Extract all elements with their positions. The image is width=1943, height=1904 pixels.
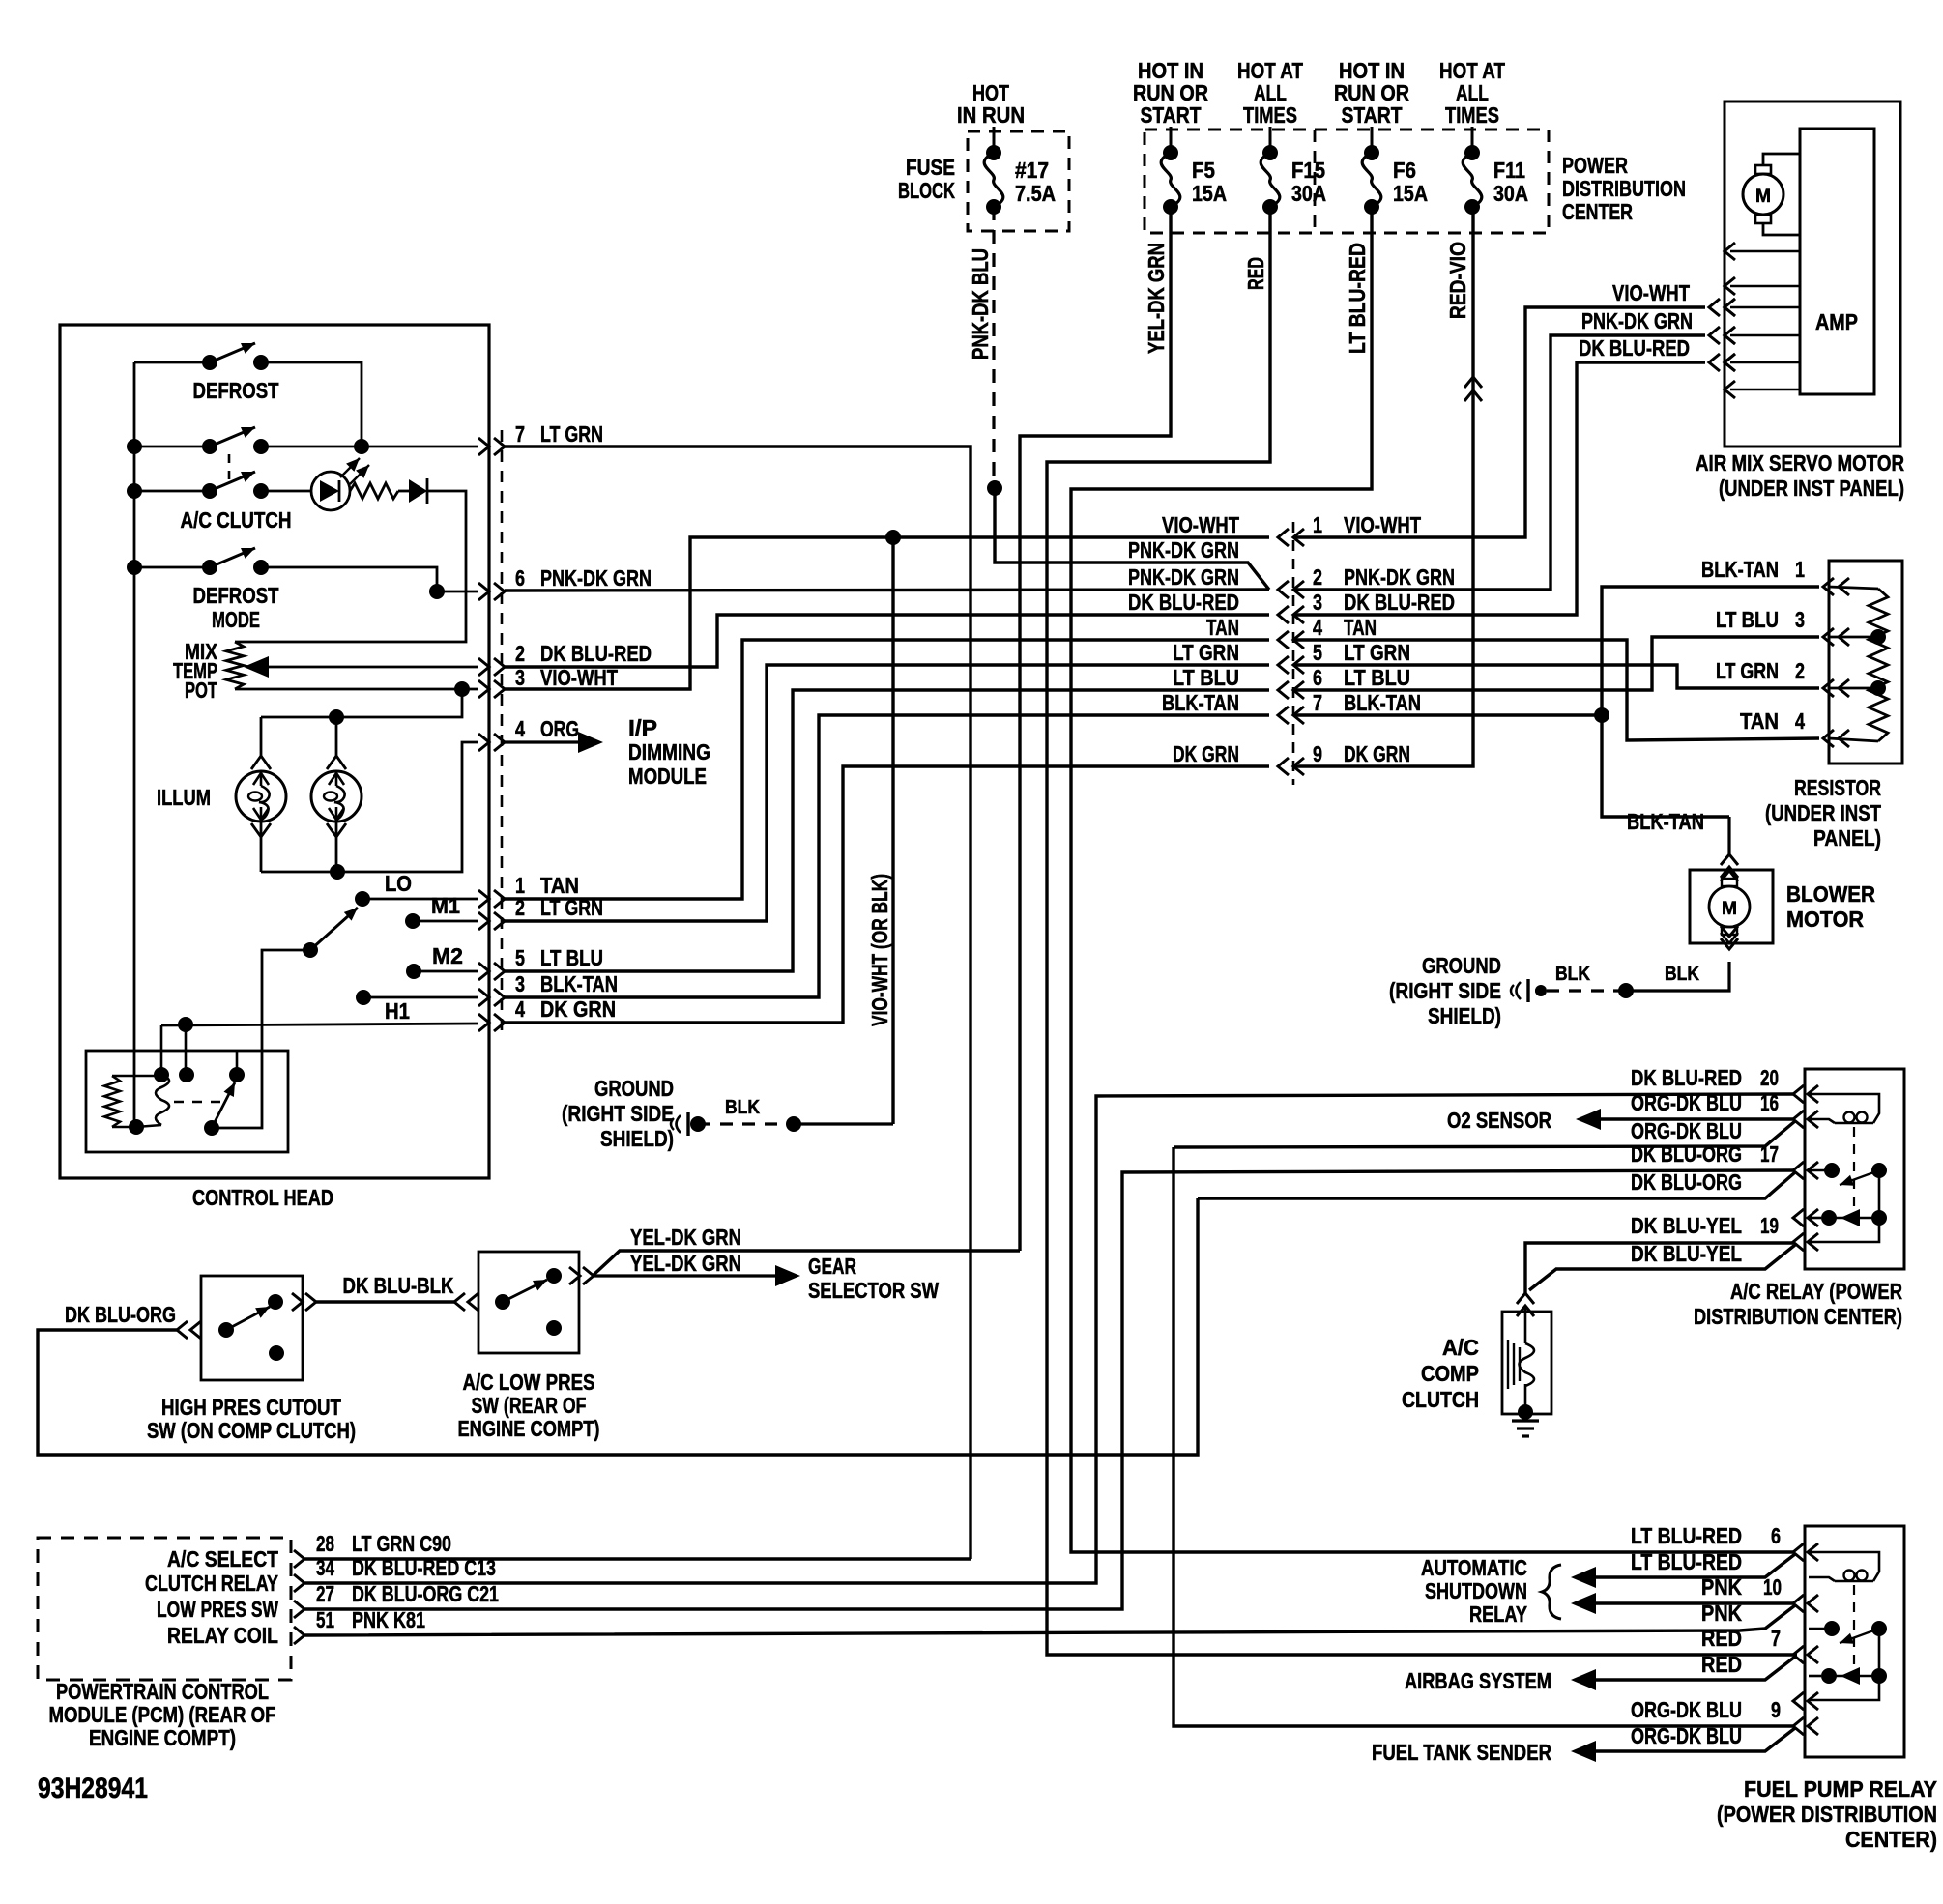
label GEAR SELECTOR SW bbox=[808, 1254, 939, 1303]
right connector dashed line bbox=[1292, 522, 1295, 785]
svg-text:(RIGHT SIDE: (RIGHT SIDE bbox=[562, 1101, 674, 1126]
diode bbox=[398, 478, 427, 504]
ASD relay brace bbox=[1542, 1565, 1561, 1619]
svg-text:PNK-DK BLU: PNK-DK BLU bbox=[968, 248, 993, 360]
svg-text:H1: H1 bbox=[385, 998, 410, 1024]
svg-text:VIO-WHT: VIO-WHT bbox=[1162, 512, 1239, 537]
svg-text:F15: F15 bbox=[1291, 158, 1325, 183]
wire BLK dashed (left ground) bbox=[690, 1116, 893, 1132]
svg-text:F11: F11 bbox=[1493, 158, 1525, 183]
svg-text:M: M bbox=[1722, 899, 1737, 919]
resistor pin 4 chevrons bbox=[1823, 730, 1849, 747]
wire YEL-DK GRN from F5 bbox=[1020, 207, 1171, 1251]
svg-text:LT BLU: LT BLU bbox=[540, 945, 603, 970]
fan M2 contact bbox=[406, 943, 478, 979]
svg-text:POT: POT bbox=[185, 678, 217, 703]
svg-text:PNK K81: PNK K81 bbox=[352, 1607, 425, 1632]
svg-text:RED: RED bbox=[1701, 1626, 1742, 1651]
svg-text:RED: RED bbox=[1243, 257, 1268, 290]
svg-text:PNK: PNK bbox=[1701, 1574, 1742, 1600]
label 1 VIO-WHT bbox=[1313, 512, 1421, 537]
label GROUND (RIGHT SIDE SHIELD) right bbox=[1389, 953, 1501, 1028]
wire ORG to dimming module bbox=[505, 732, 603, 753]
wire VIO-WHT (OR BLK) down bbox=[891, 537, 894, 1124]
amp pin stub 2 bbox=[1725, 277, 1800, 295]
svg-text:RESISTOR: RESISTOR bbox=[1794, 775, 1881, 800]
label left TAN bbox=[1206, 615, 1239, 640]
fuse F6 15A bbox=[1362, 127, 1428, 215]
svg-text:LT GRN: LT GRN bbox=[540, 895, 603, 920]
svg-text:FUEL PUMP RELAY: FUEL PUMP RELAY bbox=[1744, 1776, 1937, 1802]
wire LT GRN to resistor pin 2 bbox=[1295, 665, 1819, 688]
svg-text:DEFROST: DEFROST bbox=[193, 378, 279, 403]
wire BLK-TAN row 3 right bbox=[505, 715, 1269, 997]
wire BLK-TAN row 7 stub bbox=[1295, 713, 1602, 716]
svg-text:DIMMING: DIMMING bbox=[628, 739, 710, 764]
svg-text:2: 2 bbox=[1795, 658, 1805, 683]
label 6 LT BLU bbox=[1313, 665, 1410, 690]
svg-text:PNK: PNK bbox=[1701, 1601, 1742, 1626]
label DK BLU-BLK bbox=[343, 1273, 454, 1298]
svg-text:LT GRN C90: LT GRN C90 bbox=[352, 1531, 451, 1556]
svg-text:30A: 30A bbox=[1291, 181, 1326, 206]
wire BLK-TAN resistor pin 1 bbox=[1594, 587, 1819, 817]
label 28 LT GRN C90 bbox=[316, 1531, 451, 1556]
wire PNK-DK BLU to connector row 2 bbox=[995, 488, 1269, 590]
svg-text:6: 6 bbox=[1313, 665, 1322, 690]
svg-text:BLK-TAN: BLK-TAN bbox=[1162, 690, 1239, 715]
relay coil bbox=[136, 1075, 169, 1127]
LED indicator bbox=[311, 458, 369, 510]
svg-text:YEL-DK GRN: YEL-DK GRN bbox=[630, 1225, 741, 1250]
wire row 6 to connector bbox=[437, 591, 478, 593]
resistor tap 2 bbox=[1829, 680, 1886, 696]
wire LT BLU-RED from F6 bbox=[1071, 207, 1793, 1552]
svg-text:DK GRN: DK GRN bbox=[1173, 741, 1239, 766]
svg-text:15A: 15A bbox=[1192, 181, 1227, 206]
wire RED from F15 bbox=[1047, 207, 1797, 1655]
label PNK-DK BLU (vertical) bbox=[968, 248, 993, 360]
svg-text:CENTER): CENTER) bbox=[1845, 1827, 1937, 1852]
svg-text:CENTER: CENTER bbox=[1562, 199, 1633, 224]
label 51 PNK K81 bbox=[316, 1607, 425, 1632]
connector row 1 chevrons bbox=[1278, 529, 1304, 546]
label 2 DK BLU-RED bbox=[515, 641, 652, 666]
label 9 DK GRN bbox=[1313, 741, 1410, 766]
fuse #17 7.5A bbox=[984, 127, 1056, 215]
wire VIO-WHT to amp bbox=[1295, 299, 1735, 537]
svg-text:BLOWER: BLOWER bbox=[1786, 881, 1875, 907]
svg-text:BLOCK: BLOCK bbox=[898, 178, 955, 203]
svg-text:LT GRN: LT GRN bbox=[540, 421, 603, 447]
label left PNK-DK GRN bbox=[1128, 564, 1239, 590]
svg-text:I/P: I/P bbox=[628, 715, 657, 740]
svg-text:M: M bbox=[1755, 187, 1771, 207]
svg-text:DK BLU-RED: DK BLU-RED bbox=[1128, 590, 1239, 615]
a/c low pres sw box bbox=[478, 1252, 579, 1353]
svg-text:5: 5 bbox=[515, 945, 525, 970]
label YEL-DK GRN upper bbox=[630, 1225, 741, 1250]
svg-text:(POWER DISTRIBUTION: (POWER DISTRIBUTION bbox=[1717, 1802, 1937, 1827]
a/c low pres sw connector left bbox=[454, 1293, 478, 1311]
svg-text:MOTOR: MOTOR bbox=[1786, 907, 1864, 932]
node relay top bbox=[154, 1025, 169, 1082]
svg-text:#17: #17 bbox=[1015, 158, 1049, 183]
fuse block box (dashed) bbox=[968, 131, 1069, 231]
svg-text:HIGH PRES CUTOUT: HIGH PRES CUTOUT bbox=[161, 1395, 341, 1420]
label 4 DK GRN bbox=[515, 996, 616, 1022]
svg-text:28: 28 bbox=[316, 1531, 334, 1556]
ground symbol (blower) bbox=[1511, 979, 1528, 1002]
label A/C COMP CLUTCH bbox=[1402, 1335, 1479, 1412]
svg-text:DK GRN: DK GRN bbox=[1344, 741, 1410, 766]
wire VIO-WHT row 3 right bbox=[505, 537, 1269, 689]
fuel pump pin 9 chevrons bbox=[1793, 1717, 1818, 1735]
wire LT BLU-RED second (ASD) bbox=[1571, 1554, 1795, 1588]
label ORG-DK BLU lower bbox=[1631, 1118, 1742, 1143]
svg-text:COMP: COMP bbox=[1421, 1361, 1479, 1386]
svg-text:TAN: TAN bbox=[1740, 708, 1779, 734]
relay NO contact bbox=[229, 1051, 245, 1082]
svg-text:3: 3 bbox=[515, 665, 525, 690]
air mix servo motor outer box bbox=[1725, 101, 1900, 447]
svg-text:PNK-DK GRN: PNK-DK GRN bbox=[540, 565, 652, 591]
label O2 SENSOR bbox=[1447, 1108, 1551, 1133]
label 4 ORG bbox=[515, 716, 579, 741]
label RED lower bbox=[1701, 1652, 1742, 1677]
label 3 DK BLU-RED bbox=[1313, 590, 1455, 615]
svg-text:BLK: BLK bbox=[725, 1097, 760, 1118]
label I/P DIMMING MODULE bbox=[628, 715, 710, 789]
svg-text:VIO-WHT (OR BLK): VIO-WHT (OR BLK) bbox=[867, 874, 892, 1026]
blower motor box bbox=[1690, 870, 1773, 943]
fuel pump pin 7 chevrons bbox=[1793, 1646, 1818, 1663]
svg-text:A/C: A/C bbox=[1442, 1335, 1479, 1360]
svg-text:START: START bbox=[1141, 102, 1202, 128]
label 2 PNK-DK GRN bbox=[1313, 564, 1455, 590]
svg-text:(UNDER INST: (UNDER INST bbox=[1765, 800, 1881, 825]
label RED (vertical) bbox=[1243, 257, 1268, 290]
svg-text:F6: F6 bbox=[1393, 158, 1416, 183]
a/c relay internals bbox=[1809, 1094, 1887, 1242]
relay resistor bbox=[104, 1076, 155, 1127]
connector row 2 chevrons bbox=[1278, 581, 1304, 598]
connector pin 6 chevrons bbox=[478, 583, 505, 600]
fan M1 contact bbox=[405, 893, 478, 929]
label HOT IN RUN OR START (F5) bbox=[1133, 58, 1208, 128]
svg-text:BLK-TAN: BLK-TAN bbox=[540, 971, 618, 996]
wire DK GRN row 4 right bbox=[505, 766, 1269, 1023]
svg-text:SW (ON COMP CLUTCH): SW (ON COMP CLUTCH) bbox=[147, 1418, 356, 1443]
svg-text:BLK: BLK bbox=[1555, 964, 1590, 985]
pcm pin 34 chevron bbox=[294, 1574, 304, 1592]
label VIO-WHT (amp wire) bbox=[1612, 280, 1690, 305]
a/c comp clutch coil bbox=[1508, 1306, 1534, 1412]
a/c low pres sw connector right bbox=[569, 1267, 594, 1284]
svg-text:DISTRIBUTION: DISTRIBUTION bbox=[1562, 176, 1686, 201]
label PNK-DK GRN upper bbox=[1128, 537, 1239, 563]
wire PNK to ASD relay bbox=[1571, 1593, 1793, 1614]
svg-text:FUSE: FUSE bbox=[906, 155, 955, 180]
resistor in LED circuit bbox=[350, 483, 398, 499]
label GROUND (RIGHT SIDE SHIELD) left bbox=[562, 1076, 674, 1151]
svg-text:PNK-DK GRN: PNK-DK GRN bbox=[1344, 564, 1455, 590]
wire DK BLU-RED row 2 to pot wiper bbox=[244, 656, 478, 678]
wire diode to mix temp pot bbox=[235, 491, 466, 642]
label RED 7 bbox=[1701, 1626, 1781, 1651]
defrost mode switch bbox=[134, 548, 437, 632]
wire O2 sensor bbox=[1576, 1109, 1793, 1130]
label left LT GRN bbox=[1173, 640, 1239, 665]
amp pin stub 6 bbox=[1725, 381, 1800, 398]
svg-text:TAN: TAN bbox=[1206, 615, 1239, 640]
wire pot bottom to row 3 bbox=[235, 681, 478, 697]
svg-text:CLUTCH RELAY: CLUTCH RELAY bbox=[145, 1571, 278, 1596]
svg-text:ORG-DK BLU: ORG-DK BLU bbox=[1631, 1723, 1742, 1748]
label left LT BLU bbox=[1173, 665, 1239, 690]
a/c comp clutch box bbox=[1502, 1312, 1551, 1414]
wire PNK K81 (pcm 51) bbox=[304, 1605, 1795, 1635]
svg-text:ORG-DK BLU: ORG-DK BLU bbox=[1631, 1697, 1742, 1722]
connector row 6 chevrons bbox=[1278, 681, 1304, 699]
resistor element bbox=[1829, 587, 1888, 741]
power distribution center box (dashed) bbox=[1145, 130, 1549, 233]
wire RED-VIO / DK GRN from F11 down to row 9 bbox=[1295, 207, 1473, 766]
label AUTOMATIC SHUTDOWN RELAY bbox=[1421, 1555, 1527, 1627]
wire DK BLU-RED row 2 right bbox=[505, 615, 1269, 667]
label left BLK-TAN bbox=[1162, 690, 1239, 715]
svg-text:YEL-DK GRN: YEL-DK GRN bbox=[1144, 243, 1169, 354]
svg-text:ORG-DK BLU: ORG-DK BLU bbox=[1631, 1090, 1742, 1115]
a/c relay pin 16 chevrons bbox=[1793, 1111, 1818, 1128]
wire DK BLU-RED to amp bbox=[1295, 354, 1735, 615]
svg-text:M2: M2 bbox=[432, 943, 463, 968]
wire PNK-DK BLU from fuse #17 (dashed) bbox=[992, 207, 995, 488]
connector pin 2b chevrons bbox=[478, 912, 505, 930]
a/c relay box bbox=[1805, 1069, 1904, 1269]
svg-text:RELAY: RELAY bbox=[1469, 1601, 1527, 1627]
a/c relay pin 20 chevrons bbox=[1793, 1085, 1818, 1103]
svg-text:3: 3 bbox=[515, 971, 525, 996]
node VIO-WHT branch bbox=[885, 530, 901, 545]
high pres cutout sw connector right bbox=[292, 1293, 316, 1311]
illum lamp 1 bbox=[236, 717, 286, 872]
amp pin stub 1 bbox=[1725, 243, 1800, 260]
label TAN 4 bbox=[1740, 708, 1805, 734]
svg-text:17: 17 bbox=[1760, 1141, 1779, 1167]
wire TAN row 1 right bbox=[505, 640, 1269, 899]
label 7 BLK-TAN bbox=[1313, 690, 1421, 715]
svg-text:6: 6 bbox=[1771, 1523, 1781, 1548]
fuel pump pin 10 chevrons bbox=[1793, 1595, 1818, 1612]
svg-text:LO: LO bbox=[385, 871, 412, 896]
fuel pump pin x chevron bbox=[1793, 1692, 1818, 1710]
amp pin stub 3 bbox=[1725, 299, 1800, 316]
label ORG-DK BLU 9 bbox=[1631, 1697, 1781, 1722]
svg-text:3: 3 bbox=[1313, 590, 1322, 615]
label 5 LT BLU bbox=[515, 945, 603, 970]
svg-text:10: 10 bbox=[1763, 1574, 1782, 1600]
label AIRBAG SYSTEM bbox=[1405, 1668, 1551, 1693]
svg-text:POWER: POWER bbox=[1562, 153, 1628, 178]
label AIR MIX SERVO MOTOR bbox=[1696, 450, 1904, 501]
pcm pin 51 label bbox=[167, 1623, 278, 1648]
node splice on PNK-DK BLU bbox=[987, 480, 1002, 496]
label BLK-TAN (blower wire) bbox=[1627, 809, 1704, 834]
label DK BLU-ORG 17 bbox=[1631, 1141, 1779, 1167]
svg-text:DK BLU-RED: DK BLU-RED bbox=[1631, 1065, 1742, 1090]
svg-text:PNK-DK GRN: PNK-DK GRN bbox=[1581, 308, 1693, 333]
svg-text:9: 9 bbox=[1313, 741, 1322, 766]
svg-text:RED-VIO: RED-VIO bbox=[1445, 242, 1470, 319]
label left VIO-WHT bbox=[1162, 512, 1239, 537]
wire ORG-DK BLU second bbox=[1174, 1147, 1793, 1726]
blower motor bbox=[1709, 871, 1750, 943]
fuel pump relay box bbox=[1805, 1526, 1904, 1757]
connector row 9 chevrons bbox=[1278, 758, 1304, 775]
label 3 BLK-TAN bbox=[515, 971, 618, 996]
svg-text:RELAY COIL: RELAY COIL bbox=[167, 1623, 278, 1648]
connector row 3 chevrons bbox=[1278, 606, 1304, 623]
connector pin 4 chevrons bbox=[478, 734, 505, 751]
svg-text:5: 5 bbox=[1313, 640, 1322, 665]
wire ORG-DK BLU diag to pin16 bbox=[1174, 1121, 1795, 1147]
label CONTROL HEAD bbox=[192, 1185, 333, 1210]
svg-text:A/C CLUTCH: A/C CLUTCH bbox=[181, 507, 292, 533]
svg-text:2: 2 bbox=[515, 641, 525, 666]
a/c clutch switch bbox=[134, 472, 311, 533]
svg-text:SHIELD): SHIELD) bbox=[1428, 1003, 1501, 1028]
mode switch row 7 bbox=[134, 427, 478, 454]
relay switch arm bbox=[204, 1082, 235, 1136]
svg-text:ILLUM: ILLUM bbox=[157, 785, 211, 810]
blower ground wire bbox=[1618, 926, 1738, 998]
svg-text:2: 2 bbox=[1313, 564, 1322, 590]
svg-text:TIMES: TIMES bbox=[1445, 102, 1499, 128]
svg-text:DK BLU-YEL: DK BLU-YEL bbox=[1631, 1241, 1742, 1266]
pcm pin 28 chevron bbox=[294, 1550, 304, 1568]
svg-text:BLK-TAN: BLK-TAN bbox=[1701, 557, 1779, 582]
motor M in servo box bbox=[1743, 154, 1800, 235]
label POWERTRAIN CONTROL MODULE bbox=[49, 1679, 276, 1750]
control head box bbox=[60, 325, 489, 1178]
label ORG-DK BLU 16 bbox=[1631, 1090, 1779, 1115]
high pres cutout sw box bbox=[201, 1276, 303, 1380]
svg-text:DK BLU-RED: DK BLU-RED bbox=[540, 641, 652, 666]
svg-text:4: 4 bbox=[515, 716, 525, 741]
illum lamp 2 bbox=[311, 717, 362, 872]
svg-text:BLK-TAN: BLK-TAN bbox=[1344, 690, 1421, 715]
wire LT GRN row 2 right bbox=[505, 665, 1269, 921]
wire DK BLU-ORG from high pres sw bbox=[38, 1198, 1198, 1455]
label PNK 10 bbox=[1701, 1574, 1782, 1600]
a/c relay label bbox=[1694, 1279, 1902, 1329]
svg-text:AMP: AMP bbox=[1815, 309, 1858, 334]
svg-text:4: 4 bbox=[1795, 708, 1805, 734]
a/c comp clutch ground bbox=[1512, 1404, 1539, 1436]
node rail-row7 bbox=[127, 439, 142, 454]
svg-text:CONTROL HEAD: CONTROL HEAD bbox=[192, 1185, 333, 1210]
svg-text:27: 27 bbox=[316, 1581, 334, 1606]
svg-text:PNK-DK GRN: PNK-DK GRN bbox=[1128, 537, 1239, 563]
wire YEL-DK GRN upper bbox=[593, 1251, 1020, 1276]
label HIGH PRES CUTOUT SW bbox=[147, 1395, 356, 1443]
svg-text:51: 51 bbox=[316, 1607, 334, 1632]
label LT BLU-RED lower bbox=[1631, 1549, 1742, 1574]
label ILLUM bbox=[157, 785, 211, 810]
svg-text:LT BLU: LT BLU bbox=[1344, 665, 1410, 690]
wire LT BLU to resistor pin 3 bbox=[1295, 637, 1819, 690]
high pres cutout sw contacts bbox=[218, 1294, 284, 1361]
fuel pump pin 6 chevrons bbox=[1793, 1543, 1818, 1561]
label 1 TAN bbox=[515, 873, 579, 898]
svg-text:SHIELD): SHIELD) bbox=[600, 1126, 674, 1151]
svg-text:LT GRN: LT GRN bbox=[1716, 658, 1779, 683]
label 5 LT GRN bbox=[1313, 640, 1410, 665]
wire ORG-DK BLU second (fuel tank) bbox=[1571, 1728, 1795, 1762]
svg-text:VIO-WHT: VIO-WHT bbox=[1612, 280, 1690, 305]
left bus rail in control head bbox=[133, 362, 136, 1127]
svg-text:SHUTDOWN: SHUTDOWN bbox=[1425, 1578, 1527, 1603]
svg-text:93H28941: 93H28941 bbox=[38, 1773, 148, 1804]
wire PNK-DK GRN row 6 bbox=[505, 590, 1269, 591]
svg-text:PNK-DK GRN: PNK-DK GRN bbox=[1128, 564, 1239, 590]
wire DK BLU-RED C13 (pcm 34) bbox=[304, 1094, 1793, 1583]
svg-text:6: 6 bbox=[515, 565, 525, 591]
a/c low pres sw contacts bbox=[495, 1268, 562, 1336]
fuel pump relay internals bbox=[1809, 1552, 1887, 1700]
svg-text:2: 2 bbox=[515, 895, 525, 920]
fan rotary switch common bbox=[212, 908, 358, 1128]
node relay bottom bbox=[129, 1119, 144, 1135]
label DK BLU-YEL 19 bbox=[1631, 1213, 1779, 1238]
svg-text:DK BLU-ORG: DK BLU-ORG bbox=[1631, 1141, 1742, 1167]
svg-text:9: 9 bbox=[1771, 1697, 1781, 1722]
svg-text:DK BLU-ORG C21: DK BLU-ORG C21 bbox=[352, 1581, 499, 1606]
ganged switch dashed link bbox=[228, 454, 231, 486]
svg-text:LT BLU: LT BLU bbox=[1716, 607, 1779, 632]
node defrost-mode to row 6 bbox=[429, 584, 445, 599]
connector pin 3b chevrons bbox=[478, 989, 505, 1006]
pcm pin 34 label bbox=[145, 1571, 278, 1596]
svg-text:CLUTCH: CLUTCH bbox=[1402, 1387, 1479, 1412]
wire DK BLU-ORG C21 (pcm 27) bbox=[304, 1170, 1793, 1609]
svg-text:3: 3 bbox=[1795, 607, 1805, 632]
svg-text:YEL-DK GRN: YEL-DK GRN bbox=[630, 1251, 741, 1276]
svg-text:7: 7 bbox=[1313, 690, 1322, 715]
svg-text:TAN: TAN bbox=[1344, 615, 1377, 640]
label left DK GRN bbox=[1173, 741, 1239, 766]
svg-text:M1: M1 bbox=[431, 893, 460, 918]
label DK BLU-ORG lower bbox=[1631, 1169, 1742, 1195]
a/c relay pin 19 chevrons bbox=[1793, 1233, 1818, 1251]
wire DK GRN row 4 bbox=[161, 1017, 478, 1032]
high pres cutout sw connector left bbox=[177, 1321, 201, 1339]
pcm pin 51 chevron bbox=[294, 1627, 304, 1644]
svg-text:SELECTOR SW: SELECTOR SW bbox=[808, 1278, 939, 1303]
fan H1 contact bbox=[356, 990, 478, 1024]
svg-text:ORG-DK BLU: ORG-DK BLU bbox=[1631, 1118, 1742, 1143]
svg-text:AUTOMATIC: AUTOMATIC bbox=[1421, 1555, 1527, 1580]
svg-text:LOW PRES SW: LOW PRES SW bbox=[157, 1597, 278, 1622]
powertrain control module box (dashed) bbox=[38, 1538, 291, 1680]
blower connector chevrons bbox=[1721, 817, 1738, 878]
label 27 DK BLU-ORG C21 bbox=[316, 1581, 499, 1606]
label 3 VIO-WHT bbox=[515, 665, 618, 690]
wire LT GRN row 7 bbox=[505, 447, 971, 1559]
label BLK (left) bbox=[1555, 964, 1590, 985]
wire LT BLU row 5 right bbox=[505, 690, 1269, 971]
